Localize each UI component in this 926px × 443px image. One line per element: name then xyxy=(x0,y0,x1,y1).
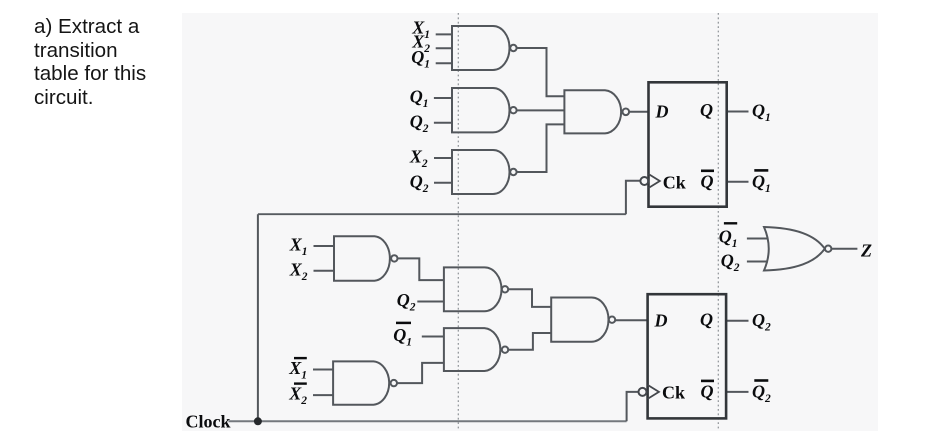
bubble G2 xyxy=(510,107,516,113)
wire FF2 Q output xyxy=(726,320,748,322)
svg-text:Ck: Ck xyxy=(663,173,686,193)
wire G3 input Q2 xyxy=(434,182,452,184)
wire clock main horizontal xyxy=(229,420,627,422)
svg-text:Q: Q xyxy=(701,382,714,402)
overbar of Qbar (FF1) xyxy=(701,170,714,173)
dotted guide line left xyxy=(457,13,459,429)
bubble G6 xyxy=(502,286,508,292)
wire G1 input Q1 xyxy=(436,62,452,64)
wire NOR output to Z xyxy=(831,248,857,250)
wire clock into FF2 Ck xyxy=(627,392,639,421)
svg-text:Q: Q xyxy=(700,310,713,330)
NOR gate (Q1bar,Q2 -> Z) xyxy=(764,227,825,271)
FF1 Ck bubble xyxy=(640,177,648,185)
wire clock into FF1 Ck xyxy=(626,181,641,214)
overbar of Q1bar (G7 input) xyxy=(396,322,411,325)
FF2 Ck bubble xyxy=(639,388,647,396)
diagram panel background xyxy=(182,13,878,431)
wire G2 input Q1 xyxy=(434,97,452,99)
FF2 Ck triangle xyxy=(648,385,659,399)
bubble NOR xyxy=(825,246,831,252)
FF1 Ck triangle xyxy=(649,174,660,188)
NAND gate G1 (X1,X2,Q1) xyxy=(452,26,510,70)
wire G1 output to G4 xyxy=(517,48,564,96)
wire G8 output to FF2 D xyxy=(616,319,648,321)
wire FF2 Qbar output xyxy=(726,391,748,393)
svg-text:D: D xyxy=(655,102,669,122)
bubble G7 xyxy=(502,347,508,353)
overbar of Qbar (FF2) xyxy=(701,380,714,383)
wire NOR input Q2 xyxy=(747,261,768,263)
overbar of X2bar (G9 input) xyxy=(294,382,307,384)
wire G9 input X2bar xyxy=(313,394,333,396)
wire G2 input Q2 xyxy=(434,122,452,124)
svg-text:Clock: Clock xyxy=(186,411,231,431)
svg-text:Ck: Ck xyxy=(662,383,685,403)
wire clock riser to feedback xyxy=(257,214,259,421)
dotted guide line right xyxy=(717,13,719,429)
bubble G3 xyxy=(510,169,516,175)
wire G1 input X2 xyxy=(436,47,452,49)
clock junction dot xyxy=(254,417,262,425)
flip-flop FF2 box xyxy=(648,294,727,418)
NAND gate G9 (X1bar,X2bar) xyxy=(333,361,389,404)
wire G9 input X1bar xyxy=(313,369,333,371)
wire G3 input X2 xyxy=(434,157,452,159)
wire clock feedback horizontal to FF1 xyxy=(258,213,626,215)
bubble G8 xyxy=(609,317,615,323)
wire G2 output to G4 xyxy=(517,109,564,111)
overbar of Q1bar (FF1 output) xyxy=(754,169,768,172)
wire G6 input Q2 xyxy=(417,301,444,303)
svg-text:Q: Q xyxy=(700,100,713,120)
wire NOR input Q1bar xyxy=(747,238,768,240)
svg-text:D: D xyxy=(654,311,668,331)
bubble G9 xyxy=(391,380,397,386)
svg-text:Z: Z xyxy=(860,241,872,261)
wire G6 output to G8 xyxy=(508,289,551,307)
question text xyxy=(34,15,194,109)
NAND gate G4 (3-input, feeds FF1 D) xyxy=(564,90,621,133)
overbar of X1bar (G9 input) xyxy=(294,357,307,359)
flip-flop FF1 box xyxy=(649,82,727,206)
bubble G1 xyxy=(510,45,516,51)
wire G3 output to G4 xyxy=(517,124,564,172)
bubble G5 xyxy=(391,255,397,261)
overbar of Q2bar (FF2 output) xyxy=(754,379,768,382)
wire G1 input X1 xyxy=(436,33,452,35)
wire G5 input X2 xyxy=(314,270,335,272)
overbar of Q1bar (NOR input) xyxy=(724,222,737,224)
svg-text:Q: Q xyxy=(701,172,714,192)
wire G5 output to G6 xyxy=(398,258,444,280)
bubble G4 xyxy=(623,109,630,116)
NAND gate G5 (X1,X2) xyxy=(334,236,390,281)
wire FF1 Q output xyxy=(727,111,749,113)
NAND gate G6 xyxy=(444,267,502,311)
NAND gate G2 (Q1,Q2) xyxy=(452,88,509,132)
wire G7 output to G8 xyxy=(508,333,551,350)
wire G5 input X1 xyxy=(314,245,335,247)
NAND gate G7 xyxy=(444,328,500,371)
NAND gate G3 (X2,Q2) xyxy=(452,150,510,194)
wire G4 output to FF1 D xyxy=(629,111,648,113)
wire FF1 Qbar output xyxy=(727,181,749,183)
wire G9 output to G7 xyxy=(397,363,444,383)
NAND gate G8 (feeds FF2 D) xyxy=(551,298,608,342)
wire G7 input Q1bar xyxy=(422,336,444,338)
